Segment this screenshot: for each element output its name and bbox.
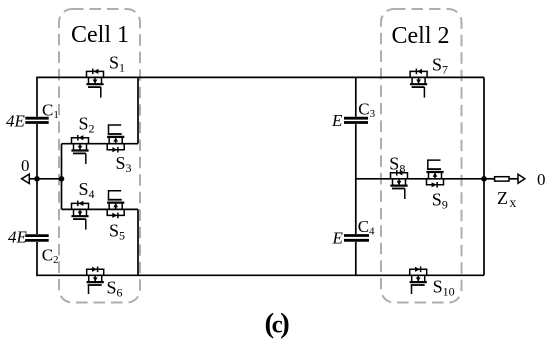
- svg-text:4E: 4E: [8, 228, 28, 247]
- wire branch S2 S3: [62, 143, 139, 145]
- wire impedance to arrow: [509, 178, 518, 180]
- transistor S9: [426, 160, 443, 188]
- wire mid bus upper segment: [355, 77, 357, 117]
- node right output junction: [481, 176, 487, 182]
- svg-text:S6: S6: [107, 278, 123, 300]
- svg-text:S9: S9: [432, 190, 448, 212]
- svg-text:Zx: Zx: [497, 188, 517, 210]
- capacitor C2: [25, 236, 48, 241]
- svg-text:E: E: [332, 229, 344, 248]
- transistor S10: [410, 267, 427, 295]
- transistor S8: [390, 170, 407, 199]
- cell 1 dashed border: [59, 9, 140, 303]
- capacitor C3: [344, 118, 368, 122]
- transistor S2: [71, 135, 88, 164]
- svg-text:Cell 1: Cell 1: [71, 22, 129, 48]
- svg-text:S7: S7: [432, 54, 448, 76]
- wire top bus: [37, 76, 484, 78]
- capacitor C4: [344, 236, 369, 241]
- terminal arrow right 0: [518, 174, 525, 183]
- svg-text:S8: S8: [389, 154, 405, 176]
- cell 2 dashed border: [381, 9, 462, 303]
- transistor S3: [107, 125, 124, 153]
- svg-text:0: 0: [21, 156, 30, 175]
- svg-text:Cell 2: Cell 2: [392, 23, 450, 49]
- svg-text:S4: S4: [79, 179, 95, 201]
- svg-text:C4: C4: [358, 217, 375, 238]
- wire mid bus lower segment: [355, 242, 357, 276]
- wire cell1 right lower vertical: [137, 209, 139, 275]
- capacitor C1: [25, 118, 48, 122]
- transistor S6: [87, 267, 104, 295]
- node left output junction on bus: [34, 176, 40, 182]
- wire left bus below C2: [36, 242, 38, 276]
- wire branch S8 S9: [356, 178, 484, 180]
- wire output to impedance: [484, 178, 495, 180]
- svg-text:E: E: [331, 111, 343, 130]
- wire cell1 right upper vertical: [137, 77, 139, 143]
- svg-text:C2: C2: [42, 246, 59, 267]
- wire left bus lower segment: [36, 124, 38, 234]
- wire mid bus middle segment: [355, 124, 357, 234]
- impedance Zx: [495, 177, 509, 181]
- wire cell1 input vertical: [61, 144, 63, 210]
- transistor S5: [107, 191, 124, 219]
- svg-text:C3: C3: [358, 100, 375, 121]
- svg-text:S5: S5: [109, 221, 125, 243]
- wire left bus upper segment: [36, 77, 38, 117]
- wire left terminal: [29, 178, 61, 180]
- wire bottom bus: [37, 274, 484, 276]
- svg-text:S10: S10: [433, 277, 455, 299]
- wire branch S4 S5: [62, 208, 139, 210]
- svg-text:0: 0: [537, 170, 546, 189]
- transistor S7: [410, 69, 427, 98]
- transistor S1: [86, 69, 103, 98]
- svg-text:S3: S3: [116, 153, 132, 175]
- transistor S4: [71, 201, 88, 230]
- svg-text:C1: C1: [42, 101, 59, 122]
- svg-text:4E: 4E: [6, 112, 26, 131]
- node cell1 input junction: [59, 176, 65, 182]
- svg-text:S1: S1: [109, 52, 125, 74]
- svg-text:S2: S2: [79, 114, 95, 136]
- wire right bus: [483, 77, 485, 275]
- svg-text:(c): (c): [265, 308, 290, 340]
- terminal arrow left 0: [22, 174, 30, 183]
